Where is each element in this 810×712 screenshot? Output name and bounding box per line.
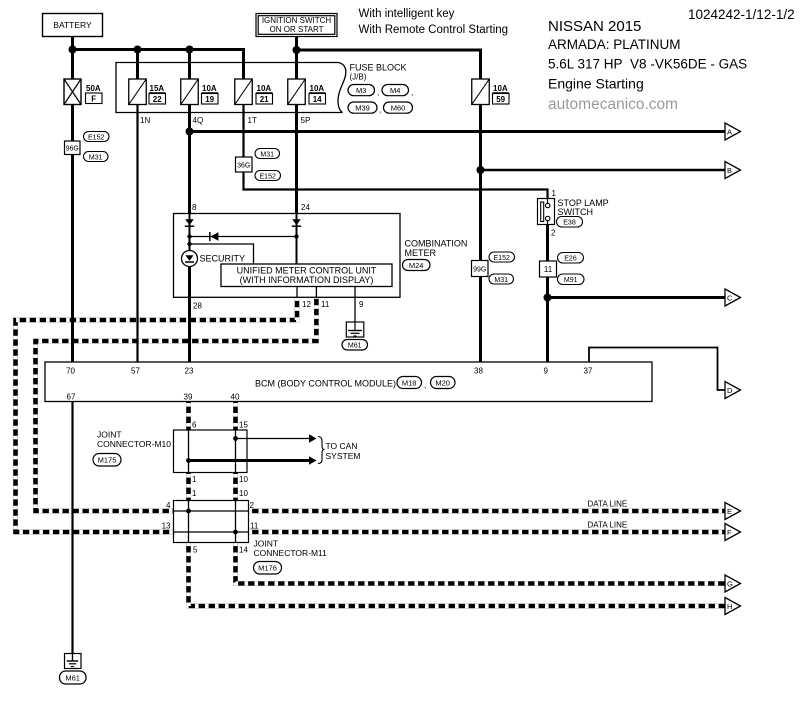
wire: line B from fuse59 wire to arrow B <box>481 169 726 172</box>
svg-text:JOINT: JOINT <box>254 539 279 549</box>
fuse 10A 19 <box>181 79 218 125</box>
svg-text:automecanico.com: automecanico.com <box>548 96 678 113</box>
svg-text:D: D <box>727 386 733 395</box>
dashed wire: meter pin11 to joint connector M11 pin4 <box>36 297 317 511</box>
svg-text:13: 13 <box>162 522 171 531</box>
wire: fuse 5P output to meter pin24 <box>295 105 298 214</box>
wire: CAN branch lower <box>186 456 316 465</box>
wire: meter pin28 to BCM pin23 <box>188 267 191 363</box>
svg-text:57: 57 <box>131 367 140 376</box>
svg-text:11: 11 <box>321 300 330 309</box>
svg-text:22: 22 <box>153 95 162 104</box>
wire: M11 internal right <box>235 501 237 543</box>
svg-text:SWITCH: SWITCH <box>558 207 594 217</box>
fuse 15A 22 <box>129 79 166 125</box>
connector M61 <box>342 340 368 351</box>
dashed wire: M11 pin11 DATA LINE to arrow F <box>249 530 726 535</box>
wire: bus branch to fuse 4Q <box>188 50 191 80</box>
svg-text:M18: M18 <box>402 378 417 387</box>
connector E152 <box>255 171 281 181</box>
connector M60 <box>384 102 413 113</box>
svg-text:4: 4 <box>166 501 171 510</box>
svg-text:METER: METER <box>405 248 437 258</box>
svg-text:UNIFIED METER CONTROL UNIT: UNIFIED METER CONTROL UNIT <box>237 266 377 276</box>
svg-text:19: 19 <box>205 95 214 104</box>
dashed wire: M10 pin1 to M11 pin1 <box>186 473 191 501</box>
svg-text:14: 14 <box>313 95 322 104</box>
svg-text:(WITH INFORMATION DISPLAY): (WITH INFORMATION DISPLAY) <box>240 275 374 285</box>
fuse block label <box>350 63 407 82</box>
svg-text:DATA LINE: DATA LINE <box>588 521 628 530</box>
dashed wire: BCM pin40 to M10 pin15 <box>233 402 238 431</box>
svg-text:Engine Starting: Engine Starting <box>548 76 644 92</box>
connector M31 <box>84 152 109 162</box>
svg-text:12: 12 <box>302 300 311 309</box>
svg-text:FUSE BLOCK: FUSE BLOCK <box>350 63 407 73</box>
svg-text:4Q: 4Q <box>193 116 204 125</box>
wire: fuse 4Q output to meter pin8 <box>188 105 191 214</box>
header titles <box>359 7 795 113</box>
fuse block outline <box>116 63 346 113</box>
svg-text:E152: E152 <box>494 255 510 262</box>
svg-text:40: 40 <box>231 393 240 402</box>
svg-text:M31: M31 <box>89 154 103 161</box>
svg-text:5: 5 <box>193 546 198 555</box>
arrow B <box>725 162 741 179</box>
wire: bus branch to fuse 1N <box>136 50 139 80</box>
arrow G <box>725 575 741 592</box>
svg-text:15: 15 <box>239 421 248 430</box>
wire: meter internal left <box>189 214 191 251</box>
wire: BCM pin37 to arrow D <box>589 348 725 391</box>
wire: line C to arrow C <box>548 296 726 299</box>
diode D2 on pin24 branch <box>292 219 301 226</box>
wire: M10 internal left <box>188 430 190 473</box>
svg-text:37: 37 <box>584 367 593 376</box>
label TO CAN SYSTEM <box>326 441 361 461</box>
wire: unified pin9 to ground <box>354 287 356 323</box>
connector M3 <box>348 85 379 98</box>
svg-text:10A: 10A <box>310 84 325 93</box>
connector E38 <box>557 217 583 228</box>
connector M31 <box>489 274 514 284</box>
svg-text:9: 9 <box>544 367 549 376</box>
svg-text:JOINT: JOINT <box>97 430 122 440</box>
svg-text:5.6L 317 HP V8 -VK56DE - GAS: 5.6L 317 HP V8 -VK56DE - GAS <box>548 57 747 72</box>
svg-text:8: 8 <box>192 203 197 212</box>
svg-text:COMBINATION: COMBINATION <box>405 239 468 249</box>
svg-text:1: 1 <box>552 189 557 198</box>
svg-text:36G: 36G <box>237 163 250 170</box>
connector M20 <box>431 377 456 389</box>
wire: stop lamp switch pin2 to BCM pin9 <box>546 225 549 363</box>
svg-text:1024242-1/12-1/2: 1024242-1/12-1/2 <box>688 7 795 22</box>
LED security lamp <box>182 251 198 267</box>
ground symbol below meter pin 9 <box>346 322 364 337</box>
connector M24 <box>403 260 431 271</box>
svg-text:BATTERY: BATTERY <box>53 20 92 30</box>
ground symbol bottom M61 <box>65 654 82 669</box>
node: bus junction 1N <box>134 46 142 54</box>
arrow E <box>725 503 741 520</box>
svg-text:2: 2 <box>250 501 255 510</box>
svg-text:(J/B): (J/B) <box>350 73 367 82</box>
svg-text:A: A <box>727 128 732 137</box>
svg-text:24: 24 <box>301 203 310 212</box>
svg-text:E: E <box>727 507 732 516</box>
connector M18 <box>397 377 426 391</box>
wire: horizontal diode link <box>190 236 297 238</box>
svg-text:CONNECTOR-M11: CONNECTOR-M11 <box>254 548 328 558</box>
wire: M11 internal upper horizontal <box>174 510 249 512</box>
svg-text:ON OR START: ON OR START <box>270 25 324 34</box>
svg-text:With Remote Control Starting: With Remote Control Starting <box>359 24 509 36</box>
svg-text:1T: 1T <box>248 116 257 125</box>
arrow H <box>725 598 741 615</box>
connector M91 <box>558 274 585 285</box>
svg-text:21: 21 <box>260 95 269 104</box>
connector M176 <box>254 562 282 575</box>
wire: BCM pin67 to ground M61 <box>71 402 73 654</box>
svg-text:,: , <box>379 106 381 115</box>
node: junction line C <box>544 294 552 302</box>
brace to CAN system <box>318 437 325 464</box>
dashed wire: M11 pin5 to arrow H <box>189 543 726 607</box>
svg-text:H: H <box>727 602 732 611</box>
connector M31 <box>255 149 280 159</box>
dashed wire: M11 pin14 to arrow G <box>236 543 726 584</box>
ignition switch box <box>256 14 337 37</box>
svg-text:11: 11 <box>544 265 553 274</box>
svg-text:F: F <box>91 95 96 104</box>
node: 4Q junction on line A <box>186 128 194 136</box>
arrow A <box>725 123 741 140</box>
arrow D <box>725 382 741 399</box>
node: junction line B <box>477 166 485 174</box>
svg-text:10: 10 <box>239 475 248 484</box>
dashed wire: M10 pin10 to M11 pin10 <box>233 473 238 501</box>
svg-text:SYSTEM: SYSTEM <box>326 451 361 461</box>
BCM box <box>45 362 652 402</box>
svg-text:M176: M176 <box>258 564 277 573</box>
diode D1 on pin8 branch <box>185 219 194 226</box>
node: M11 upper junction <box>186 509 191 514</box>
joint connector M10 box <box>174 430 248 473</box>
svg-text:NISSAN 2015: NISSAN 2015 <box>548 18 641 35</box>
label joint connector M10 <box>97 430 171 450</box>
fusible link 50A F <box>64 79 102 105</box>
dashed wire: BCM pin39 to M10 pin6 <box>186 402 191 431</box>
wire: fuse 59 output to BCM pin38 <box>479 105 482 363</box>
connector tag 96G on battery wire <box>65 141 81 155</box>
connector tag 36G on 1T wire <box>236 157 253 172</box>
svg-text:23: 23 <box>185 367 194 376</box>
svg-text:1: 1 <box>192 475 197 484</box>
dashed wire: meter pin12 to joint connector M11 pin13 <box>16 297 298 532</box>
node: ignition bus junction <box>293 46 301 54</box>
label combination meter <box>405 239 468 259</box>
connector M175 <box>93 454 121 467</box>
wire: M10 internal right <box>235 430 237 473</box>
diode D3 pointing left <box>210 232 219 241</box>
battery box <box>43 14 103 37</box>
arrow F <box>725 524 741 541</box>
svg-text:10A: 10A <box>257 84 272 93</box>
wire: fuse 1T output to stop lamp switch <box>244 105 548 199</box>
connector E152 <box>489 252 515 262</box>
connector M61 <box>60 671 87 684</box>
svg-text:E38: E38 <box>563 220 576 227</box>
svg-text:9: 9 <box>359 300 364 309</box>
svg-text:2: 2 <box>551 229 556 238</box>
svg-text:99G: 99G <box>473 267 486 274</box>
svg-text:M3: M3 <box>356 86 366 95</box>
wire: M11 internal lower horizontal <box>174 531 249 533</box>
svg-text:6: 6 <box>192 421 197 430</box>
svg-text:10A: 10A <box>493 84 508 93</box>
svg-text:B: B <box>727 166 732 175</box>
connector tag 11 on stop lamp wire <box>540 261 557 277</box>
wire: bus from ignition to fuse 59 <box>297 50 481 79</box>
wire: fuse 1N output to BCM pin57 <box>136 105 138 363</box>
svg-text:15A: 15A <box>150 84 165 93</box>
svg-text:E152: E152 <box>88 134 104 141</box>
svg-text:E152: E152 <box>260 173 276 180</box>
svg-text:C: C <box>727 294 733 303</box>
svg-text:70: 70 <box>66 367 75 376</box>
stop lamp switch E38 <box>538 189 609 238</box>
svg-text:CONNECTOR-M10: CONNECTOR-M10 <box>97 439 171 449</box>
connector M4 <box>382 85 413 98</box>
svg-text:67: 67 <box>67 393 76 402</box>
wire: M11 internal left <box>188 501 190 543</box>
svg-text:E26: E26 <box>564 256 577 263</box>
node: right junction <box>294 234 298 238</box>
svg-text:M4: M4 <box>390 86 400 95</box>
svg-text:11: 11 <box>250 522 259 531</box>
svg-text:50A: 50A <box>86 84 101 93</box>
node: left junction <box>187 234 191 238</box>
svg-text:M91: M91 <box>564 277 578 284</box>
arrow C <box>725 289 741 306</box>
connector E26 <box>558 253 584 264</box>
node: bus junction 4Q <box>186 46 194 54</box>
connector E152 <box>84 132 110 142</box>
combination meter box <box>174 214 401 298</box>
node: battery bus junction <box>69 46 77 54</box>
svg-text:38: 38 <box>474 367 483 376</box>
fuse 10A 59 <box>472 79 509 105</box>
wire: branch to unified unit <box>190 244 254 264</box>
svg-text:M31: M31 <box>494 277 508 284</box>
svg-text:M61: M61 <box>65 674 80 683</box>
joint connector M11 box <box>174 501 249 543</box>
wire: battery drop and main feed to BCM pin70 <box>71 37 74 363</box>
unified meter control unit box <box>221 264 392 287</box>
svg-text:5P: 5P <box>301 116 311 125</box>
svg-text:10: 10 <box>239 489 248 498</box>
svg-text:,: , <box>411 88 413 97</box>
node: M11 lower junction <box>233 530 238 535</box>
svg-text:M20: M20 <box>435 378 450 387</box>
wire: unified pin12 stub <box>296 287 298 298</box>
wire: line A from 4Q junction to arrow A <box>190 130 726 133</box>
svg-text:1N: 1N <box>140 116 150 125</box>
connector tag 99G on fuse59 wire <box>472 261 489 277</box>
fuse 10A 14 <box>288 79 326 125</box>
dashed wire: M11 pin2 DATA LINE to arrow E <box>249 509 726 514</box>
svg-text:F: F <box>727 528 732 537</box>
svg-text:With intelligent key: With intelligent key <box>359 8 455 20</box>
svg-text:M31: M31 <box>260 151 274 158</box>
svg-text:M60: M60 <box>391 104 406 113</box>
svg-text:SECURITY: SECURITY <box>200 254 246 264</box>
svg-text:59: 59 <box>496 95 505 104</box>
svg-text:TO CAN: TO CAN <box>326 441 358 451</box>
wire: unified pin11 stub <box>315 287 317 298</box>
svg-text:M61: M61 <box>348 343 362 350</box>
svg-text:M39: M39 <box>355 104 370 113</box>
svg-text:IGNITION SWITCH: IGNITION SWITCH <box>262 16 332 25</box>
wire: CAN branch upper <box>233 434 316 443</box>
svg-text:14: 14 <box>239 546 248 555</box>
svg-text:96G: 96G <box>66 146 79 153</box>
wire: ignition switch drop to fuse 5P <box>295 37 298 80</box>
wire: meter internal right <box>296 214 298 265</box>
svg-text:ARMADA: PLATINUM: ARMADA: PLATINUM <box>548 37 681 52</box>
connector M39 <box>348 102 381 115</box>
svg-text:M175: M175 <box>98 456 117 465</box>
svg-text:,: , <box>377 88 379 97</box>
wire: top bus from battery to fuse 1T <box>73 50 244 80</box>
svg-text:BCM (BODY CONTROL MODULE): BCM (BODY CONTROL MODULE) <box>255 379 396 389</box>
node: security branch junction <box>187 242 191 246</box>
svg-text:28: 28 <box>193 302 202 311</box>
svg-text:DATA LINE: DATA LINE <box>588 500 628 509</box>
svg-text:10A: 10A <box>202 84 217 93</box>
svg-text:G: G <box>727 580 733 589</box>
fuse 10A 21 <box>235 79 273 125</box>
svg-text:1: 1 <box>192 489 197 498</box>
svg-text:39: 39 <box>184 393 193 402</box>
svg-text:M24: M24 <box>409 261 424 270</box>
svg-text:,: , <box>424 381 426 390</box>
label joint connector M11 <box>254 539 328 559</box>
